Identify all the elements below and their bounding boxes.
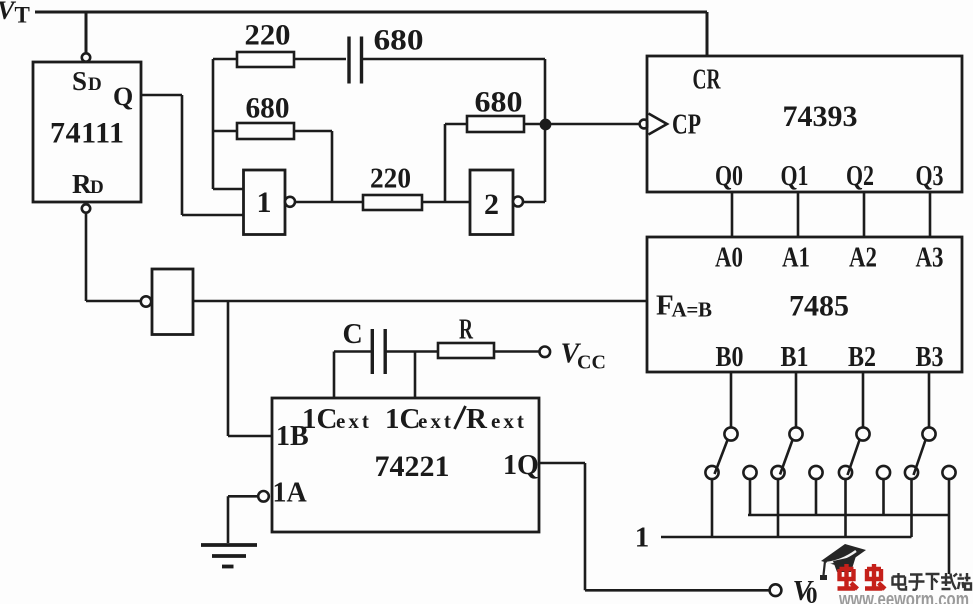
svg-text:1Q: 1Q bbox=[503, 450, 539, 481]
svg-text:220: 220 bbox=[370, 163, 411, 195]
svg-text:R: R bbox=[466, 403, 488, 435]
svg-text:1A: 1A bbox=[273, 478, 308, 509]
svg-text:B0: B0 bbox=[716, 342, 744, 373]
svg-text:CC: CC bbox=[577, 352, 606, 374]
svg-text:1: 1 bbox=[257, 186, 272, 219]
svg-text:Q1: Q1 bbox=[781, 161, 809, 192]
svg-text:1B: 1B bbox=[276, 421, 309, 452]
svg-text:A0: A0 bbox=[715, 243, 743, 274]
svg-text:680: 680 bbox=[246, 92, 290, 125]
svg-text:74393: 74393 bbox=[783, 100, 858, 133]
svg-text:C: C bbox=[343, 319, 363, 350]
svg-text:CR: CR bbox=[693, 64, 722, 96]
svg-text:74221: 74221 bbox=[375, 450, 450, 483]
svg-text:7485: 7485 bbox=[789, 290, 849, 323]
svg-text:A3: A3 bbox=[916, 243, 944, 274]
svg-text:www.eeworm.com: www.eeworm.com bbox=[838, 589, 969, 604]
svg-text:2: 2 bbox=[484, 188, 499, 221]
svg-text:D: D bbox=[88, 74, 102, 95]
svg-text:B1: B1 bbox=[781, 342, 809, 373]
svg-text:D: D bbox=[90, 177, 104, 198]
svg-text:74111: 74111 bbox=[50, 117, 124, 150]
svg-text:A=B: A=B bbox=[672, 298, 713, 322]
svg-text:Q: Q bbox=[113, 82, 133, 111]
svg-text:CP: CP bbox=[672, 109, 701, 141]
svg-text:B2: B2 bbox=[848, 342, 876, 373]
svg-text:ext: ext bbox=[336, 409, 372, 433]
svg-text:680: 680 bbox=[475, 86, 523, 119]
svg-text:680: 680 bbox=[374, 24, 424, 57]
svg-text:Q0: Q0 bbox=[715, 161, 743, 192]
svg-text:Q3: Q3 bbox=[916, 161, 944, 192]
svg-text:R: R bbox=[72, 169, 92, 199]
svg-text:B3: B3 bbox=[916, 342, 944, 373]
svg-text:ext: ext bbox=[491, 409, 527, 433]
svg-text:ext: ext bbox=[418, 409, 454, 433]
svg-text:T: T bbox=[15, 3, 30, 28]
svg-text:A1: A1 bbox=[782, 243, 810, 274]
svg-text:0: 0 bbox=[806, 583, 818, 604]
svg-text:Q2: Q2 bbox=[846, 161, 874, 192]
svg-text:R: R bbox=[459, 315, 474, 346]
svg-text:A2: A2 bbox=[849, 243, 877, 274]
svg-text:1C: 1C bbox=[385, 403, 420, 435]
svg-text:S: S bbox=[72, 66, 87, 96]
svg-text:220: 220 bbox=[245, 19, 291, 52]
svg-text:1: 1 bbox=[635, 522, 650, 554]
